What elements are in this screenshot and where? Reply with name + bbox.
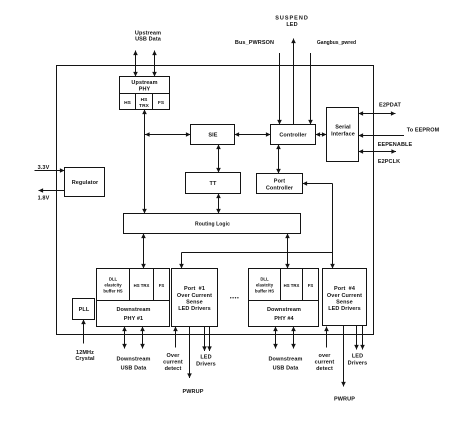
svg-text:LED: LED [286,22,297,28]
block Controller [271,125,316,145]
svg-text:LED: LED [200,355,211,361]
wire port controller net horizontal branch [182,252,333,254]
svg-text:SUSPEND: SUSPEND [275,16,309,22]
svg-text:To EEPROM: To EEPROM [407,128,440,134]
wire Controller to Port Controller [278,145,280,174]
wire upstream PHY to routing logic vertical [144,110,146,214]
svg-text:Controller: Controller [279,133,307,139]
wire LED drivers 1b [209,327,211,352]
wire SIE to PHY junction [145,134,191,136]
wire 1.8V out of regulator [39,190,65,192]
label LED Drivers right [348,354,368,367]
svg-text:Sense: Sense [336,300,353,306]
svg-text:USB Data: USB Data [273,366,300,372]
svg-text:PHY #1: PHY #1 [124,316,143,322]
svg-text:Drivers: Drivers [348,361,368,367]
svg-text:over: over [318,353,331,359]
svg-text:TT: TT [210,181,217,187]
svg-text:PHY: PHY [139,87,151,93]
svg-text:Regulator: Regulator [72,180,99,186]
wire Controller to Serial Interface [316,134,327,136]
wire E2PCLK [359,151,397,153]
svg-text:Gangbus_pwred: Gangbus_pwred [317,40,356,46]
svg-text:Crystal: Crystal [75,356,95,362]
block Downstream PHY 4 [249,269,319,327]
svg-text:detect: detect [316,366,333,372]
wire LED drivers 4a [356,326,358,350]
wire PWRUP 4 [343,326,345,387]
label Upstream USB Data [135,31,162,43]
svg-text:Interface: Interface [331,132,355,138]
dots between port groups [230,297,239,298]
svg-text:elastcity: elastcity [256,283,274,288]
wire 3.3V into regulator [35,170,65,172]
wire upstream USB data line 1 [135,51,137,77]
label LED Drivers left [196,355,216,368]
wire downstream USB data 1a [124,327,126,349]
svg-text:HS: HS [124,100,132,106]
svg-text:Port #1: Port #1 [184,286,205,292]
svg-text:E2PCLK: E2PCLK [378,159,400,165]
svg-text:Port: Port [274,179,285,185]
svg-text:PHY #4: PHY #4 [274,316,294,322]
svg-text:detect: detect [165,366,182,372]
svg-text:Over Current: Over Current [327,293,362,299]
block SIE [191,125,235,145]
svg-text:1.8V: 1.8V [38,196,50,202]
svg-text:Controller: Controller [266,186,294,192]
svg-text:Bus_PWRSON: Bus_PWRSON [235,40,274,46]
wire upstream USB data line 2 [154,51,156,77]
block Port 4 Over Current Sense LED Drivers [323,269,367,326]
svg-text:FS: FS [158,100,165,106]
chip outline box [57,66,374,335]
label Over current detect left [163,353,183,372]
block Port Controller [257,174,303,194]
wire downstream USB data 4b [293,327,295,349]
upstream PHY block U-PHY [120,77,170,110]
svg-text:PLL: PLL [79,307,90,313]
svg-text:FS: FS [159,283,165,288]
wire Gangbus_pwred [310,53,312,125]
label Downstream USB Data left [116,357,150,372]
svg-text:Downstream: Downstream [267,307,301,313]
wire PWRUP 1 [189,327,191,379]
block Routing Logic [124,214,301,234]
svg-text:LED Drivers: LED Drivers [328,306,361,312]
block Downstream PHY 1 [97,269,170,327]
wire downstream USB data 4a [275,327,277,349]
wire Bus_PWRSON [279,53,281,125]
svg-text:LED: LED [352,354,363,360]
svg-text:SIE: SIE [208,133,217,139]
svg-text:Serial: Serial [335,125,351,131]
svg-text:current: current [163,360,183,366]
label SUSPEND LED [275,16,309,29]
svg-text:PWRUP: PWRUP [183,389,204,395]
svg-text:DLL: DLL [109,277,118,282]
wire TT to Routing Logic [218,194,220,214]
svg-text:HS TRX: HS TRX [284,283,300,288]
wire SIE to TT [218,145,220,173]
svg-text:USB Data: USB Data [121,366,148,372]
svg-text:Sense: Sense [186,300,203,306]
label over current detect right [315,353,335,372]
svg-text:buffer HS: buffer HS [103,289,122,294]
wire 12MHz crystal into PLL [83,320,85,344]
wire Routing Logic to Downstream PHY 1 [143,234,145,269]
block Port 1 Over Current Sense LED Drivers [172,269,218,327]
label Downstream USB Data right [268,357,302,372]
wire port controller net vertical [332,184,334,269]
svg-text:TRX: TRX [139,103,150,109]
label 12MHz Crystal [75,350,95,362]
svg-text:HS TRX: HS TRX [134,283,150,288]
svg-text:Downstream: Downstream [116,307,150,313]
wire Routing Logic to Downstream PHY 4 [287,234,289,269]
svg-text:LED Drivers: LED Drivers [178,306,211,312]
wire E2PDAT [359,113,396,115]
wire SUSPEND LED [293,39,295,125]
svg-text:EEPENABLE: EEPENABLE [378,142,413,148]
wire SIE to Controller [235,134,271,136]
svg-text:Downstream: Downstream [116,357,150,363]
block PLL [73,299,95,320]
svg-text:buffer HS: buffer HS [255,289,274,294]
wire port controller net horizontal top [303,183,333,185]
svg-text:Over: Over [167,353,181,359]
svg-text:PWRUP: PWRUP [334,397,355,403]
svg-text:FS: FS [308,283,314,288]
svg-text:Port #4: Port #4 [334,286,356,292]
svg-text:DLL: DLL [260,277,269,282]
wire EEPENABLE [359,135,405,137]
svg-text:current: current [315,360,335,366]
block Regulator [65,168,105,197]
svg-text:USB Data: USB Data [135,37,162,43]
wire over current detect 4 [326,327,328,348]
svg-text:E2PDAT: E2PDAT [379,103,401,109]
block TT [186,173,241,194]
svg-text:Drivers: Drivers [196,362,216,368]
wire downstream USB data 1b [142,327,144,349]
svg-text:Downstream: Downstream [268,357,302,363]
svg-text:Upstream: Upstream [131,80,157,86]
wire LED drivers 1a [204,327,206,352]
svg-text:Over Current: Over Current [177,293,212,299]
block Serial Interface [327,108,359,162]
svg-text:HS: HS [141,97,149,103]
wire over current detect 1 [175,327,177,348]
svg-text:elastcity: elastcity [104,283,122,288]
wire LED drivers 4b [362,326,364,350]
svg-text:Routing Logic: Routing Logic [195,222,230,228]
wire port controller net drop to Port 1 [181,253,183,269]
